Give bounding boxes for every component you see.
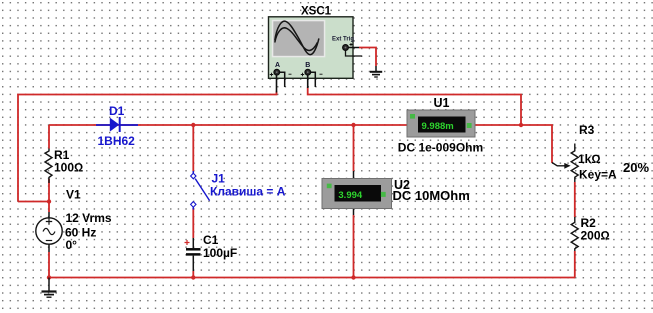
ground near scope ext trig [370,66,382,77]
source V1 [36,188,112,253]
resistor R2 [571,216,610,251]
svg-text:Ext Trig: Ext Trig [332,36,354,42]
wire switch branch [192,125,194,238]
svg-text:U1: U1 [434,96,450,110]
wire R1 branch vertical [48,125,50,202]
svg-text:C1: C1 [203,233,219,247]
svg-text:DC 1e-009Ohm: DC 1e-009Ohm [398,141,483,155]
svg-text:DC 10MOhm: DC 10MOhm [393,188,470,203]
voltmeter U2 [322,171,470,215]
svg-text:0°: 0° [66,238,78,252]
svg-text:100Ω: 100Ω [54,160,83,174]
junction node U2 bottom rail [351,275,355,279]
svg-text:B: B [305,62,310,69]
svg-text:3.994: 3.994 [338,190,362,201]
svg-text:9.988m: 9.988m [422,121,454,132]
wire ext trig to ground [359,48,376,67]
capacitor C1 [185,233,238,271]
svg-text:12 Vrms: 12 Vrms [66,211,112,225]
wire R2 bottom corner [574,251,576,278]
junction node V1 bottom rail [47,275,51,279]
potentiometer R3 [552,123,649,182]
svg-text:V1: V1 [66,188,81,202]
svg-text:R3: R3 [579,123,595,137]
svg-text:Key=A: Key=A [579,168,617,182]
wire U2 branch [353,125,355,278]
wire U1 right to junction [475,124,521,126]
ground below V1 [42,278,57,298]
svg-text:100µF: 100µF [203,246,237,260]
wire scope B to right vertical down to U1 right node [308,88,521,126]
junction node diode row / switch [191,123,195,127]
wire left loop from V1 top node up and across to scope A [18,92,277,202]
wire junction to R3 wiper feed [521,125,552,163]
junction node C1 bottom rail [191,275,195,279]
junction node V1 top [47,199,51,203]
wire main horizontal net y=125 (diode row) [49,124,407,126]
diode D1 [96,104,138,148]
svg-text:1kΩ: 1kΩ [578,152,601,166]
svg-text:XSC1: XSC1 [301,5,332,17]
wire R3 to R2 [574,182,576,217]
resistor R1 [45,148,83,183]
svg-text:J1: J1 [212,172,226,186]
svg-text:20%: 20% [623,160,649,175]
oscilloscope XSC1 [269,5,363,92]
svg-text:1BH62: 1BH62 [98,134,136,148]
svg-text:Клавиша = A: Клавиша = A [210,185,286,199]
ammeter U1 [398,96,483,155]
wire V1 bottom to ground node [48,252,50,278]
junction node diode row / U2 [351,123,355,127]
svg-text:A: A [275,62,280,69]
switch J1 [191,171,286,210]
wire V1 top [48,202,50,213]
svg-text:D1: D1 [109,104,125,118]
junction node U1 right / scope B / R3 [519,123,523,127]
wire C1 bottom (red tail) [192,271,194,278]
svg-text:200Ω: 200Ω [581,228,610,242]
wire bottom rail [49,277,575,279]
